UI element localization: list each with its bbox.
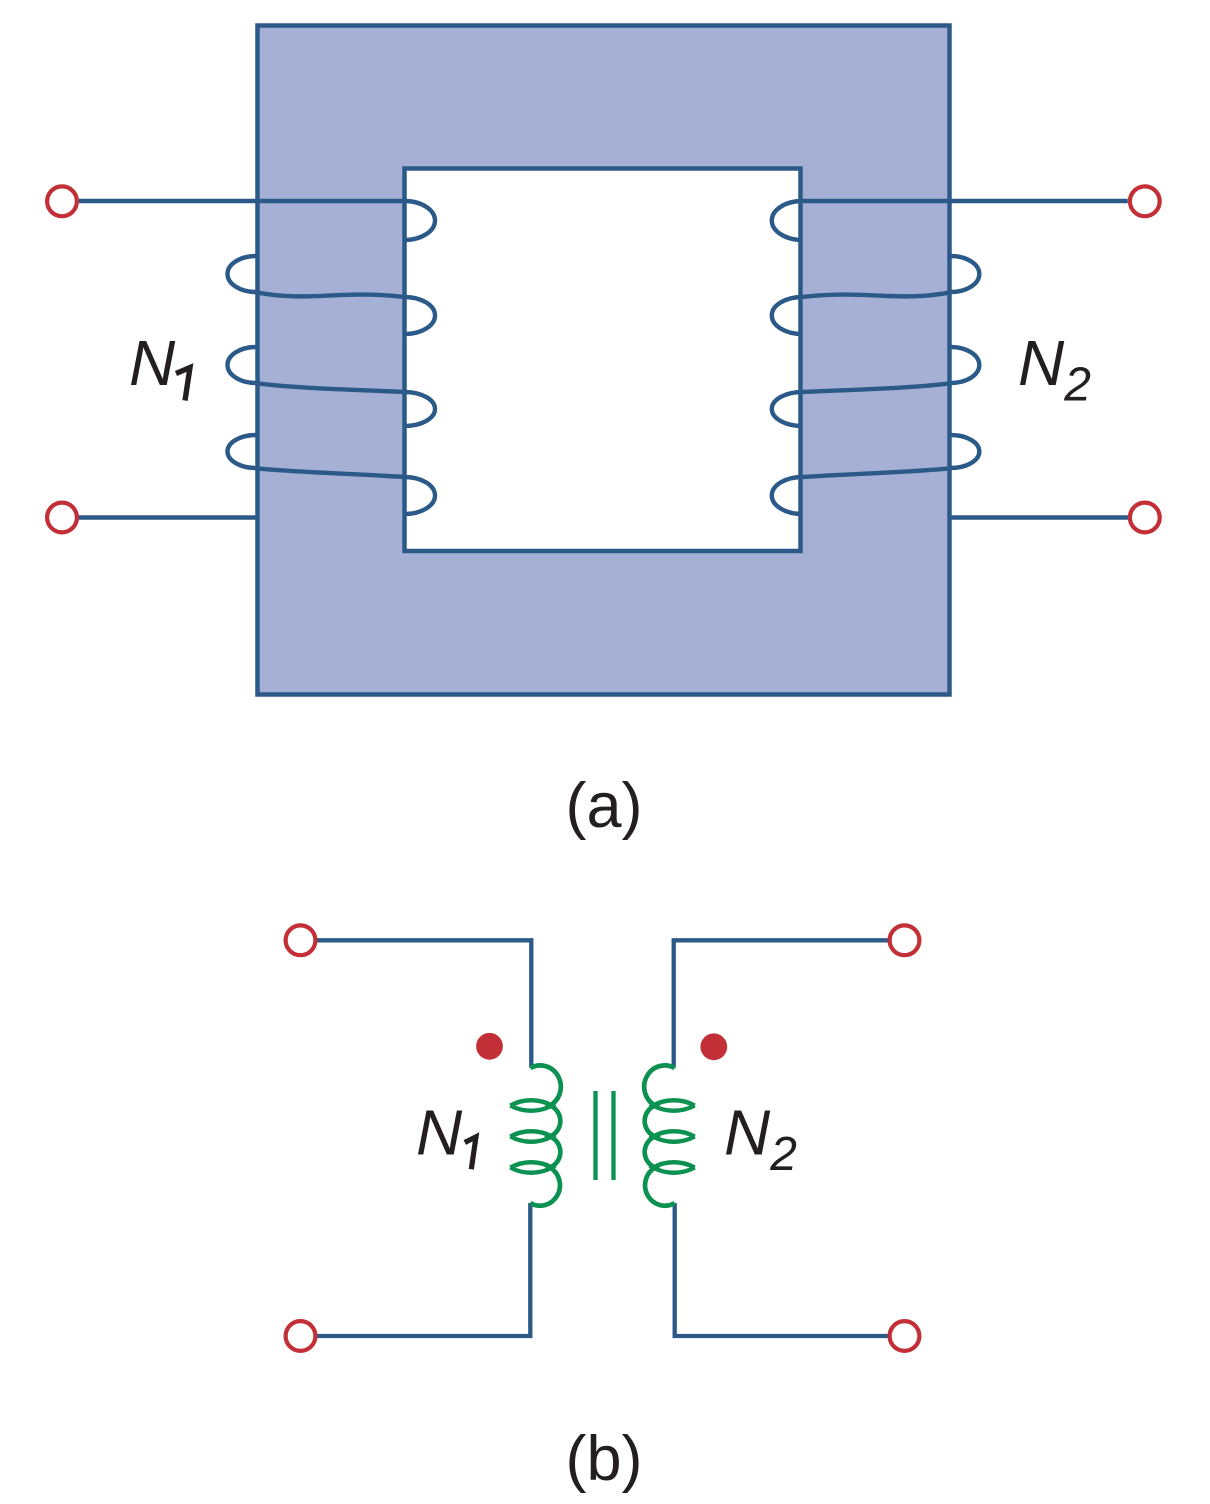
coil N1 loop 1: [510, 1100, 552, 1111]
coil N1 serpentine: [530, 1065, 560, 1205]
svg-text:N2: N2: [724, 1097, 797, 1182]
terminal b top-right: [890, 925, 920, 955]
label N1 (a): [129, 327, 190, 401]
coil N2 loop 1: [653, 1100, 695, 1111]
winding N1 inner arc turn 4: [405, 477, 436, 514]
wire b bottom-right: [675, 1203, 888, 1336]
svg-text:N: N: [129, 327, 176, 399]
terminal b bottom-left: [286, 1321, 316, 1351]
coil N2 loop 2: [653, 1131, 695, 1142]
terminal a bottom-right: [1130, 503, 1160, 533]
label N1 (b): [416, 1097, 476, 1170]
winding N2 crossing wire 1: [802, 292, 951, 297]
wire b bottom-left: [317, 1203, 530, 1336]
coil N2 (b): [644, 1065, 694, 1205]
terminal a top-left: [47, 186, 77, 216]
polarity dot left: [476, 1033, 503, 1060]
svg-text:(a): (a): [566, 771, 643, 841]
wire bottom-right lead: [951, 515, 1145, 519]
winding N2 outer arc turn 2: [951, 347, 980, 383]
polarity dot right: [700, 1033, 727, 1060]
coil N1 loop 2: [510, 1131, 552, 1142]
coil N2 loop 3: [653, 1162, 695, 1173]
winding N1 outer arc turn 1: [228, 256, 257, 292]
wire bottom-left lead: [62, 515, 256, 519]
wire top-left lead: [79, 199, 405, 203]
wire top-right lead: [802, 199, 1128, 203]
winding N2 inner arc turn 1: [772, 201, 803, 240]
winding N2 inner arc turn 3: [772, 392, 803, 426]
winding N1 crossing wire 2: [256, 383, 405, 392]
coil N1 (b): [510, 1065, 560, 1205]
winding N2 outer arc turn 3: [951, 435, 980, 468]
transformer core (a): [258, 26, 950, 695]
winding N2 outer arc turn 1: [951, 256, 980, 292]
wire b top-left: [317, 940, 531, 1068]
winding N1 inner arc turn 3: [405, 392, 436, 426]
terminal b top-left: [286, 925, 316, 955]
winding N1 crossing wire 3: [256, 468, 405, 477]
winding N1 outer arc turn 3: [228, 435, 257, 468]
winding N2 inner arc turn 2: [772, 297, 803, 334]
svg-text:N: N: [416, 1097, 463, 1169]
svg-text:(b): (b): [566, 1424, 643, 1494]
terminal b bottom-right: [890, 1321, 920, 1351]
winding N1 outer arc turn 2: [228, 347, 257, 383]
core lines (b): [596, 1091, 614, 1180]
winding N1 inner arc turn 2: [405, 297, 436, 334]
wire b top-right: [674, 940, 888, 1068]
winding N2 crossing wire 3: [802, 468, 951, 477]
winding N1 crossing wire 1: [256, 292, 405, 297]
winding N1 (primary, left leg): [62, 201, 435, 518]
terminal a top-right: [1130, 186, 1160, 216]
winding N2 inner arc turn 4: [772, 477, 803, 514]
terminal a bottom-left: [47, 503, 77, 533]
coil N2 serpentine: [644, 1065, 674, 1205]
winding N2 crossing wire 2: [802, 383, 951, 392]
winding N1 inner arc turn 1: [405, 201, 436, 240]
winding N2 (secondary, right leg, mirror): [772, 201, 1145, 518]
coil N1 loop 3: [510, 1162, 552, 1173]
svg-text:N2: N2: [1018, 327, 1091, 412]
